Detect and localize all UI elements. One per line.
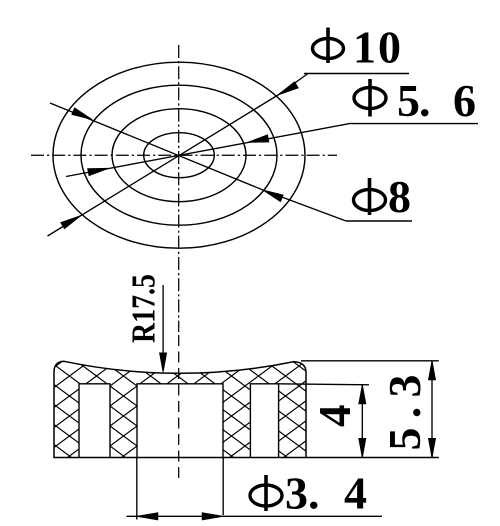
label phi10 (313, 22, 404, 73)
arrow dim4 bottom (359, 439, 366, 458)
arrow phi3.4 left (137, 513, 158, 520)
arrow phi8 upper-left (72, 108, 92, 120)
R17.5 arrow (160, 353, 167, 372)
dim line phi5.6 (66, 123, 351, 176)
vertical centerline (178, 45, 180, 332)
horizontal centerline (31, 154, 337, 156)
svg-text:.: . (419, 75, 431, 126)
underline phi8 (346, 220, 412, 222)
vertical centerline section part (178, 335, 180, 483)
svg-text:10: 10 (353, 22, 403, 73)
hole3 top extension line to dim 4 (279, 384, 369, 385)
svg-text:.: . (308, 468, 320, 519)
label phi8 (354, 171, 412, 222)
svg-text:3: 3 (285, 468, 308, 519)
svg-text:5: 5 (397, 75, 420, 126)
R17.5 leader (162, 285, 164, 353)
svg-text:4: 4 (310, 405, 360, 428)
dim line phi8 (50, 103, 346, 221)
hole 2 center walls (137, 384, 223, 458)
dim line phi10 (48, 74, 309, 237)
section body with crosshatch (54, 361, 306, 457)
section outline (54, 361, 306, 457)
hole 3 walls (250, 384, 278, 458)
dim 5.3 line (431, 361, 433, 458)
underline phi10 (304, 73, 409, 75)
arrow phi5.6 left (88, 168, 109, 175)
arrow phi5.6 right (248, 135, 269, 142)
arrow phi3.4 right (202, 513, 223, 520)
arrow phi10 lower (61, 216, 81, 229)
dim 4 line (361, 385, 363, 458)
svg-text:6: 6 (453, 75, 476, 126)
top extension line for 5.3 (301, 360, 439, 362)
svg-text:R17.5: R17.5 (126, 274, 163, 343)
arrow dim5.3 bottom (429, 439, 436, 458)
label phi5.6 (354, 75, 476, 126)
svg-text:5.3: 5.3 (379, 375, 430, 451)
arrow phi8 lower-right (263, 190, 283, 202)
ellipse phi5.6 (112, 109, 246, 202)
arrow dim4 top (359, 385, 366, 404)
svg-text:8: 8 (388, 171, 411, 222)
underline phi5.6 (351, 123, 478, 125)
label phi3.4 (250, 468, 367, 519)
ellipse inner hole (144, 133, 215, 178)
arrow phi10 upper (278, 82, 298, 95)
ellipse phi8 (81, 85, 277, 225)
hole 1 walls (79, 384, 110, 458)
phi3.4 dim line (127, 515, 383, 517)
phi3.4 extension line left (136, 458, 138, 520)
phi3.4 extension line right (222, 458, 224, 516)
svg-text:4: 4 (344, 468, 367, 519)
ellipse phi10 outer (53, 62, 305, 248)
bottom line with extension (53, 457, 439, 459)
arrow dim5.3 top (429, 361, 436, 380)
